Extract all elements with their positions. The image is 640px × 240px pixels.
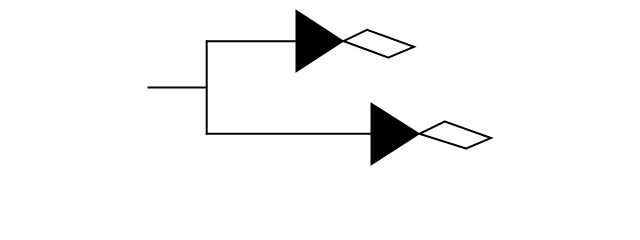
buffer U2 (filled triangle, bottom) (371, 103, 420, 165)
wire: vertical branch (206, 40, 208, 135)
buffer U1 (filled triangle, top) (296, 10, 344, 72)
wire: input stub (148, 87, 208, 89)
wire: top branch to buffer (206, 40, 297, 42)
parallelogram output symbol (bottom) (420, 122, 492, 149)
parallelogram output symbol (top) (344, 30, 415, 58)
wire: bottom branch to buffer (206, 133, 372, 135)
